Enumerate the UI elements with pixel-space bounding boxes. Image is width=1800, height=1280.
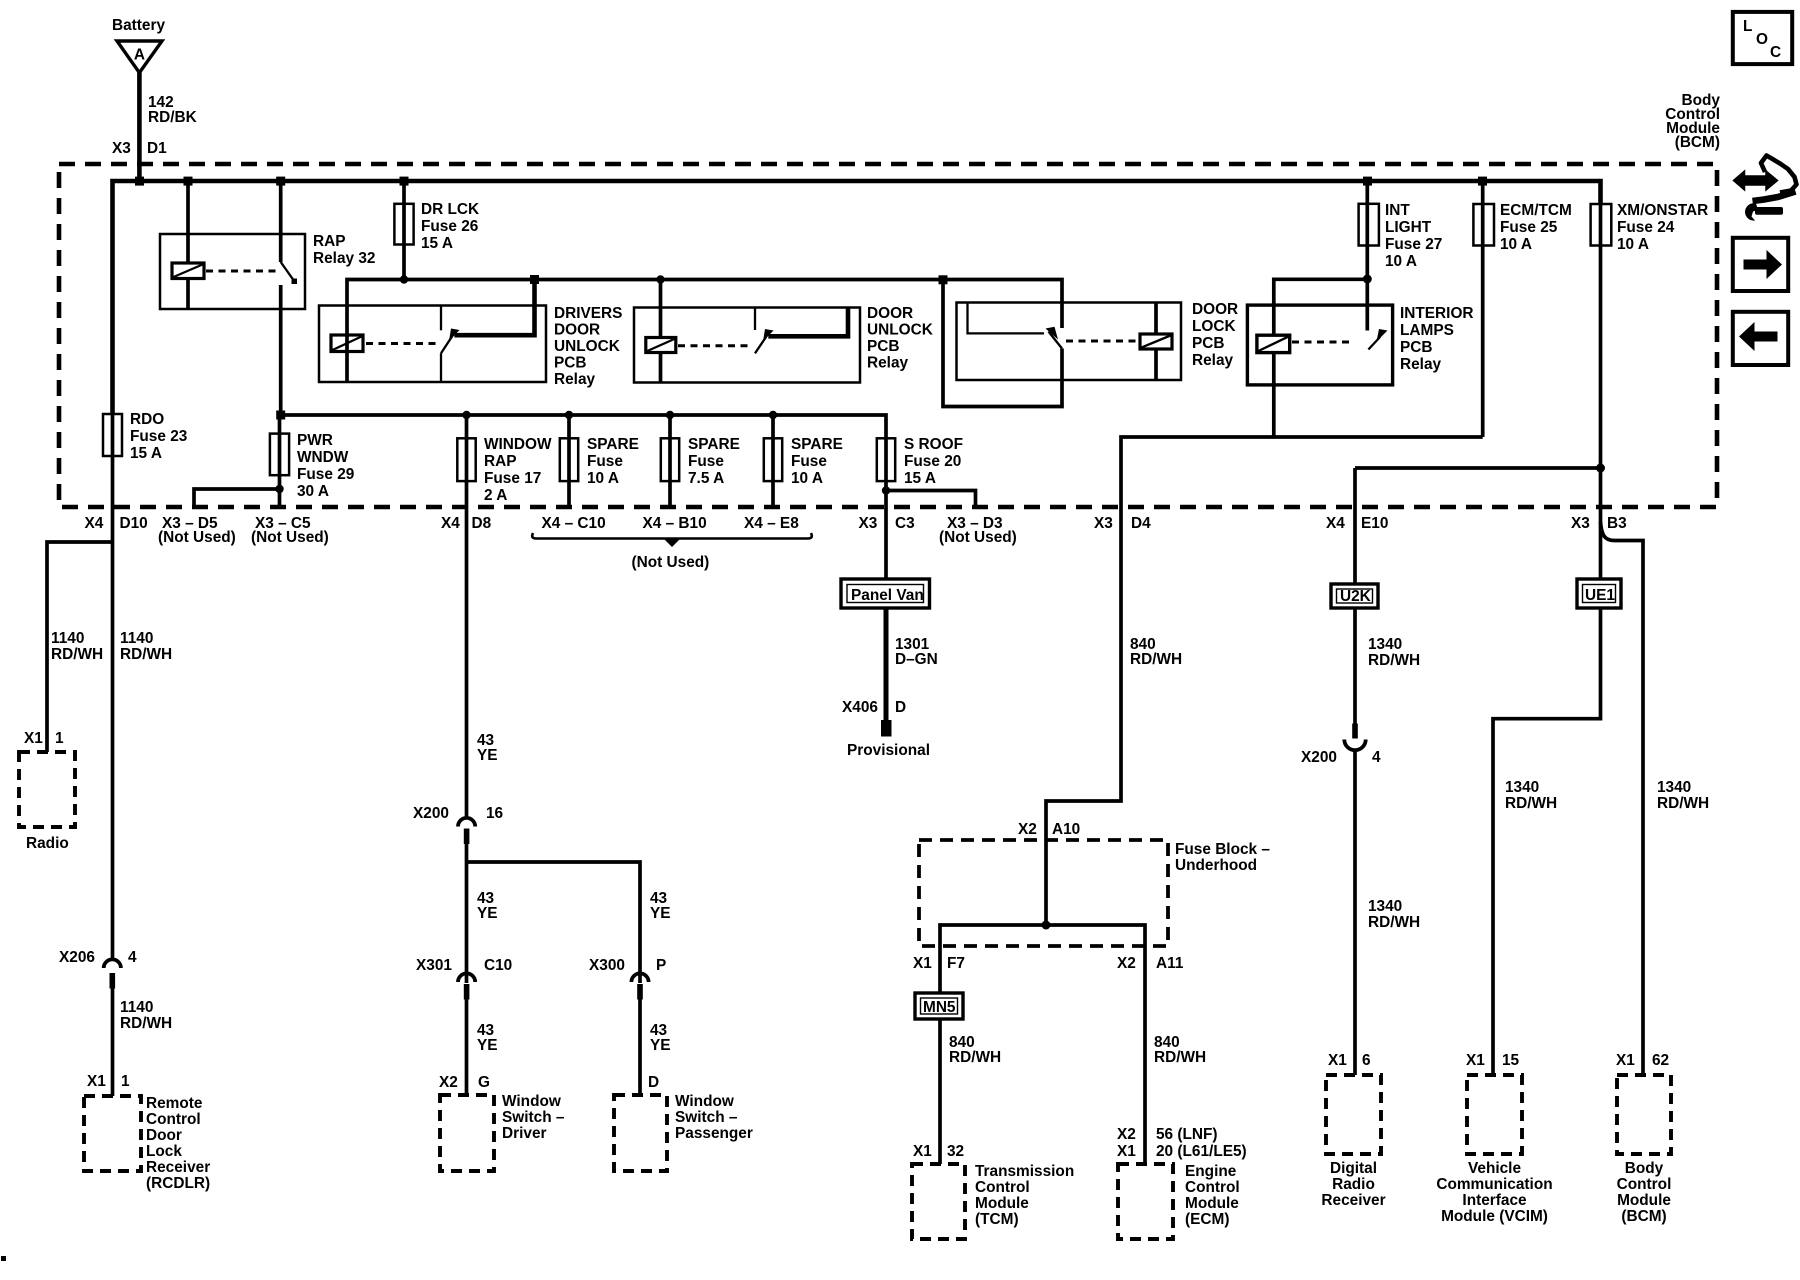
wire: 1340 RD/WH to digital radio receiver	[1328, 749, 1420, 1075]
relay K4 coil	[1257, 279, 1367, 437]
svg-text:56 (LNF): 56 (LNF)	[1156, 1126, 1218, 1143]
svg-text:X1: X1	[24, 730, 43, 747]
svg-text:X4 – B10: X4 – B10	[643, 515, 707, 532]
wire: branch to BCM battery input	[1601, 522, 1644, 1075]
wire: 1140 RD/WH to RCDLR	[87, 988, 172, 1096]
node: RAP switch to fuse row	[276, 411, 285, 420]
fuse F20 S ROOF 15A	[877, 436, 963, 487]
svg-text:X2: X2	[1018, 821, 1037, 838]
svg-text:Fuse 17: Fuse 17	[484, 470, 541, 487]
svg-text:Fuse 27: Fuse 27	[1385, 236, 1442, 253]
relay K1 coil	[331, 335, 363, 382]
svg-text:Relay: Relay	[1400, 356, 1442, 373]
svg-text:S ROOF: S ROOF	[904, 436, 963, 453]
svg-text:15 A: 15 A	[130, 445, 162, 462]
svg-text:7.5 A: 7.5 A	[688, 470, 724, 487]
node: door lock relay tap	[939, 275, 948, 284]
svg-text:16: 16	[486, 805, 503, 822]
wire: fuse 20 stub to X3-D3	[886, 491, 976, 508]
wire: fuse row bus	[281, 415, 886, 438]
wire: main battery bus inside BCM	[113, 181, 1601, 414]
svg-text:(Not Used): (Not Used)	[158, 529, 236, 546]
fuse spare 7.5A (X4-B10)	[661, 415, 740, 507]
svg-text:F7: F7	[947, 955, 965, 972]
svg-text:32: 32	[947, 1143, 964, 1160]
svg-text:PCB: PCB	[1400, 339, 1433, 356]
svg-text:Fuse: Fuse	[587, 453, 623, 470]
relay K2 coil-to-contact dashed link	[678, 344, 752, 347]
wire: circuit 1140 RD/WH from fuse 23	[51, 456, 172, 959]
svg-text:Fuse 29: Fuse 29	[297, 466, 354, 483]
node: drivers relay NO tap	[530, 275, 539, 284]
svg-text:(Not Used): (Not Used)	[251, 529, 329, 546]
svg-text:1: 1	[121, 1073, 130, 1090]
wire: battery to bus, circuit 142 RD/BK	[112, 71, 197, 183]
relay K32 switch contact	[281, 181, 297, 415]
wire: circuit 43 YE from fuse 17	[467, 481, 498, 818]
svg-text:(Not Used): (Not Used)	[939, 529, 1017, 546]
svg-text:Provisional: Provisional	[847, 742, 930, 759]
svg-text:Vehicle: Vehicle	[1468, 1160, 1521, 1177]
svg-text:Door: Door	[146, 1127, 182, 1144]
svg-text:RAP: RAP	[313, 233, 346, 250]
svg-text:E10: E10	[1361, 515, 1388, 532]
svg-text:15 A: 15 A	[904, 470, 936, 487]
wire labels 43 YE lower	[477, 1022, 671, 1054]
svg-text:UE1: UE1	[1585, 587, 1615, 604]
svg-text:LOCK: LOCK	[1192, 318, 1236, 335]
node: fuse 25 tap	[1478, 177, 1487, 186]
fuse spare 10A (X4-C10)	[560, 415, 639, 507]
node: fuse 26 tap	[400, 177, 409, 186]
svg-text:Fuse 23: Fuse 23	[130, 428, 187, 445]
svg-text:RAP: RAP	[484, 453, 517, 470]
relay K32 coil	[172, 181, 204, 309]
icon: arrow right legend box	[1733, 238, 1788, 291]
component: Window Switch - Driver	[440, 1093, 565, 1171]
svg-text:Battery: Battery	[112, 17, 165, 34]
component: Digital Radio Receiver	[1321, 1075, 1385, 1209]
svg-text:X2: X2	[439, 1074, 458, 1091]
node: fuse 24 output split	[1596, 464, 1605, 473]
svg-text:Communication: Communication	[1436, 1176, 1552, 1193]
svg-text:PCB: PCB	[1192, 335, 1225, 352]
node: spare fuse tap 2	[666, 411, 674, 419]
svg-text:(BCM): (BCM)	[1621, 1208, 1666, 1225]
component: Vehicle Communication Interface Module (VCIM)	[1436, 1075, 1552, 1225]
svg-text:Receiver: Receiver	[1321, 1192, 1385, 1209]
svg-text:YE: YE	[650, 905, 671, 922]
relay K3 coil-to-contact dashed link	[1066, 340, 1137, 343]
relay K3 DOOR LOCK PCB Relay box	[957, 301, 1239, 380]
svg-text:RD/WH: RD/WH	[1154, 1049, 1206, 1066]
svg-text:Window: Window	[502, 1093, 561, 1110]
svg-text:L: L	[1743, 18, 1752, 35]
wire: fuse 29 stub to X3-D5	[194, 489, 280, 507]
component: Engine Control Module (ECM)	[1118, 1163, 1240, 1239]
relay K32 coil-to-contact dashed link	[206, 270, 276, 273]
svg-text:Passenger: Passenger	[675, 1125, 753, 1142]
svg-text:RD/WH: RD/WH	[120, 646, 172, 663]
wire: 840 RD/WH to TCM	[913, 1019, 1001, 1164]
wire: 840 RD/WH to ECM	[1117, 1034, 1247, 1160]
svg-text:Relay: Relay	[867, 355, 909, 372]
svg-text:Engine: Engine	[1185, 1163, 1237, 1180]
svg-text:X3: X3	[1094, 515, 1113, 532]
svg-text:PCB: PCB	[554, 355, 587, 372]
svg-text:Control: Control	[146, 1111, 201, 1128]
relay K1 DRIVERS DOOR UNLOCK PCB Relay box	[319, 305, 622, 388]
svg-text:RDO: RDO	[130, 411, 164, 428]
node: battery junction on bus	[135, 177, 144, 186]
svg-text:1340: 1340	[1368, 636, 1402, 653]
svg-text:UNLOCK: UNLOCK	[867, 322, 933, 339]
svg-text:Relay: Relay	[1192, 352, 1234, 369]
svg-text:D: D	[648, 1074, 659, 1091]
svg-text:X4: X4	[441, 515, 460, 532]
svg-text:X1: X1	[87, 1073, 106, 1090]
component: Fuse Block - Underhood dashed box	[919, 840, 1270, 946]
wire: split to both window switches	[467, 843, 641, 1095]
svg-text:D10: D10	[120, 515, 148, 532]
svg-text:30 A: 30 A	[297, 483, 329, 500]
wire: door lock relay outer loop	[943, 280, 1062, 407]
svg-text:X300: X300	[589, 957, 625, 974]
svg-text:Fuse Block –: Fuse Block –	[1175, 841, 1270, 858]
option tag: Panel Van	[841, 579, 930, 608]
connector X206 pin 4 inline	[59, 949, 137, 989]
option tag: U2K	[1331, 584, 1378, 608]
svg-text:(BCM): (BCM)	[1675, 134, 1720, 151]
svg-text:SPARE: SPARE	[688, 436, 740, 453]
svg-text:YE: YE	[477, 747, 498, 764]
relay K4 INTERIOR LAMPS PCB Relay box	[1247, 305, 1473, 385]
svg-text:1340: 1340	[1368, 898, 1402, 915]
svg-text:(TCM): (TCM)	[975, 1211, 1019, 1228]
svg-text:SPARE: SPARE	[587, 436, 639, 453]
svg-text:Fuse 25: Fuse 25	[1500, 219, 1558, 236]
svg-text:O: O	[1756, 31, 1768, 48]
svg-text:P: P	[656, 957, 666, 974]
svg-text:X1: X1	[1466, 1052, 1485, 1069]
svg-text:1140: 1140	[120, 999, 153, 1016]
svg-text:Fuse 26: Fuse 26	[421, 218, 478, 235]
svg-text:C: C	[1770, 44, 1781, 61]
svg-text:X3: X3	[1571, 515, 1590, 532]
svg-text:10 A: 10 A	[1385, 253, 1417, 270]
svg-text:X1: X1	[913, 1143, 932, 1160]
svg-text:Relay: Relay	[554, 371, 596, 388]
svg-text:(RCDLR): (RCDLR)	[146, 1175, 210, 1192]
fuse F27 INT LIGHT 10A	[1359, 181, 1443, 279]
svg-text:15 A: 15 A	[421, 235, 453, 252]
label: Body Control Module (BCM)	[1665, 92, 1720, 151]
component: Window Switch - Passenger	[614, 1093, 753, 1171]
relay K1 switch contact with arrow	[441, 281, 535, 381]
wire: UE1 to VCIM circuit 1340 RD/WH	[1466, 608, 1601, 1075]
svg-text:1140: 1140	[51, 630, 84, 647]
svg-text:6: 6	[1362, 1052, 1371, 1069]
node: underhood junction	[1042, 921, 1051, 930]
svg-text:X1: X1	[1117, 1143, 1136, 1160]
svg-text:X301: X301	[416, 957, 452, 974]
relay K4 coil-to-contact dashed link	[1292, 341, 1354, 344]
node: fuse 20 output split	[882, 486, 890, 494]
svg-text:Interface: Interface	[1462, 1192, 1527, 1209]
BCM module dashed boundary box	[59, 164, 1717, 507]
fuse F23 RDO 15A	[103, 411, 187, 462]
wire: circuit 840 RD/WH from fuse 25 to underhood fuse block	[1018, 437, 1483, 925]
relay K1 coil-to-contact dashed link	[366, 342, 438, 345]
wire: circuit 1340 RD/WH branch from fuse 24	[1355, 468, 1601, 669]
svg-text:10 A: 10 A	[1500, 236, 1532, 253]
svg-text:D1: D1	[147, 140, 167, 157]
svg-text:Window: Window	[675, 1093, 734, 1110]
icon: moveable part with tool	[1734, 156, 1797, 221]
mark: page corner dot	[1, 1256, 6, 1261]
fuse F26 DR LCK 15A	[394, 181, 479, 280]
node: fuse 29 output split	[275, 485, 283, 493]
svg-text:C3: C3	[895, 515, 915, 532]
svg-text:D–GN: D–GN	[895, 651, 938, 668]
svg-text:1340: 1340	[1505, 779, 1539, 796]
svg-text:Radio: Radio	[1332, 1176, 1375, 1193]
option tag: UE1	[1577, 579, 1621, 608]
fuse F29 PWR WNDW 30A	[270, 415, 354, 507]
svg-text:RD/WH: RD/WH	[1368, 914, 1420, 931]
relay K3 switch contact with arrow	[968, 304, 1063, 349]
relay K32 RAP Relay box	[160, 233, 375, 309]
svg-text:X4 – C10: X4 – C10	[542, 515, 606, 532]
svg-text:X406: X406	[842, 699, 878, 716]
svg-text:Body: Body	[1625, 1160, 1664, 1177]
svg-text:Module: Module	[1185, 1195, 1239, 1212]
svg-text:Control: Control	[975, 1179, 1030, 1196]
svg-text:INT: INT	[1385, 202, 1410, 219]
svg-text:U2K: U2K	[1340, 588, 1371, 605]
component: Transmission Control Module (TCM)	[912, 1163, 1074, 1239]
icon: arrow left legend box	[1733, 312, 1788, 365]
svg-text:A10: A10	[1052, 821, 1080, 838]
relay K4 switch contact with arrow	[1367, 279, 1387, 350]
icon: LOC legend box	[1733, 12, 1792, 64]
svg-text:D8: D8	[472, 515, 492, 532]
svg-text:RD/BK: RD/BK	[148, 109, 197, 126]
fuse F17 WINDOW RAP 2A	[457, 415, 552, 504]
relay K2 coil	[646, 280, 676, 383]
svg-text:SPARE: SPARE	[791, 436, 843, 453]
svg-text:DR LCK: DR LCK	[421, 201, 479, 218]
node: fuse 27 tap	[1363, 177, 1372, 186]
svg-text:XM/ONSTAR: XM/ONSTAR	[1617, 202, 1708, 219]
node: spare fuse tap 3	[769, 411, 777, 419]
svg-text:X2: X2	[1117, 955, 1136, 972]
svg-text:DOOR: DOOR	[554, 322, 600, 339]
connector X200 pin 16 inline	[413, 805, 503, 844]
svg-text:LAMPS: LAMPS	[1400, 322, 1454, 339]
svg-text:YE: YE	[650, 1037, 671, 1054]
svg-text:1140: 1140	[120, 630, 153, 647]
svg-text:D: D	[895, 699, 906, 716]
svg-text:Lock: Lock	[146, 1143, 182, 1160]
svg-text:20 (L61/LE5): 20 (L61/LE5)	[1156, 1143, 1247, 1160]
node: spare fuse tap 1	[565, 411, 573, 419]
connector labels along BCM bottom edge	[85, 515, 1627, 546]
connector X1 pin F7	[913, 955, 965, 972]
node: interior lamps relay tap	[1363, 275, 1372, 284]
svg-text:Driver: Driver	[502, 1125, 547, 1142]
svg-text:C10: C10	[484, 957, 512, 974]
svg-text:X2: X2	[1117, 1126, 1136, 1143]
svg-text:MN5: MN5	[923, 999, 956, 1016]
svg-text:1: 1	[55, 730, 64, 747]
svg-text:Control: Control	[1617, 1176, 1672, 1193]
svg-text:Switch –: Switch –	[675, 1109, 738, 1126]
fuse F25 ECM/TCM 10A	[1473, 181, 1571, 437]
svg-text:(ECM): (ECM)	[1185, 1211, 1229, 1228]
svg-text:Fuse 20: Fuse 20	[904, 453, 961, 470]
svg-text:RD/WH: RD/WH	[949, 1049, 1001, 1066]
svg-text:Transmission: Transmission	[975, 1163, 1074, 1180]
svg-text:X3: X3	[859, 515, 878, 532]
wire labels 43 YE driver branch	[477, 890, 671, 922]
svg-text:2 A: 2 A	[484, 487, 507, 504]
svg-text:WINDOW: WINDOW	[484, 436, 552, 453]
svg-text:DOOR: DOOR	[1192, 301, 1238, 318]
svg-text:X4: X4	[1326, 515, 1345, 532]
svg-text:WNDW: WNDW	[297, 449, 349, 466]
svg-text:Fuse: Fuse	[688, 453, 724, 470]
svg-text:B3: B3	[1607, 515, 1627, 532]
connector X300 pin P inline	[589, 957, 666, 1000]
svg-text:Control: Control	[1185, 1179, 1240, 1196]
svg-text:YE: YE	[477, 905, 498, 922]
svg-text:Digital: Digital	[1330, 1160, 1377, 1177]
svg-text:Relay 32: Relay 32	[313, 250, 375, 267]
svg-text:Underhood: Underhood	[1175, 857, 1257, 874]
svg-text:Receiver: Receiver	[146, 1159, 210, 1176]
svg-text:DRIVERS: DRIVERS	[554, 305, 622, 322]
svg-text:Fuse 24: Fuse 24	[1617, 219, 1675, 236]
connector X1 pin 1 radio	[24, 730, 64, 747]
svg-text:Panel Van: Panel Van	[851, 587, 924, 604]
svg-text:RD/WH: RD/WH	[1368, 652, 1420, 669]
svg-text:X1: X1	[1328, 1052, 1347, 1069]
wire: relay feed bus from fuse 26	[347, 280, 1062, 336]
svg-text:YE: YE	[477, 1037, 498, 1054]
bracket: not used spare connectors	[532, 533, 812, 571]
fuse spare 10A (X4-E8)	[764, 415, 843, 507]
node: fuse 17 tap	[462, 411, 470, 419]
connector X200 pin 4 inline	[1301, 724, 1381, 767]
svg-text:X200: X200	[1301, 749, 1337, 766]
svg-text:RD/WH: RD/WH	[1130, 651, 1182, 668]
svg-text:X1: X1	[1616, 1052, 1635, 1069]
svg-text:PCB: PCB	[867, 338, 900, 355]
svg-text:RD/WH: RD/WH	[120, 1015, 172, 1032]
svg-text:X4: X4	[85, 515, 104, 532]
svg-text:4: 4	[1372, 749, 1381, 766]
component: Radio	[19, 752, 75, 852]
option tag: MN5	[915, 993, 963, 1019]
svg-text:X200: X200	[413, 805, 449, 822]
wire: circuit 1301 D-GN provisional	[842, 608, 938, 759]
svg-text:(Not Used): (Not Used)	[632, 554, 710, 571]
svg-text:UNLOCK: UNLOCK	[554, 338, 620, 355]
svg-text:A: A	[134, 47, 145, 64]
node: door unlock relay coil tap	[656, 275, 664, 283]
svg-text:X4 – E8: X4 – E8	[744, 515, 799, 532]
svg-text:ECM/TCM: ECM/TCM	[1500, 202, 1572, 219]
wire: underhood split to TCM and ECM feeds	[940, 925, 1145, 1164]
wire: branch to radio	[47, 542, 113, 752]
svg-text:10 A: 10 A	[587, 470, 619, 487]
connector X301 pin C10 inline	[416, 957, 512, 1000]
wire: fuse 20 output to panel van	[884, 481, 888, 579]
node: RAP switch tap	[276, 177, 285, 186]
svg-text:10 A: 10 A	[791, 470, 823, 487]
component: Body Control Module (BCM) lower	[1617, 1075, 1672, 1225]
svg-text:INTERIOR: INTERIOR	[1400, 305, 1474, 322]
svg-text:10 A: 10 A	[1617, 236, 1649, 253]
node: fuse 26 to relay bus	[400, 275, 408, 283]
component: Remote Control Door Lock Receiver (RCDLR)	[84, 1095, 210, 1192]
svg-text:X1: X1	[913, 955, 932, 972]
svg-text:DOOR: DOOR	[867, 305, 913, 322]
node: RAP coil tap	[184, 177, 193, 186]
battery feed symbol A	[112, 17, 165, 73]
svg-text:LIGHT: LIGHT	[1385, 219, 1432, 236]
svg-text:Module: Module	[1617, 1192, 1671, 1209]
wire: U2K to X200	[1353, 608, 1357, 724]
svg-text:X206: X206	[59, 949, 95, 966]
svg-text:62: 62	[1652, 1052, 1669, 1069]
svg-text:D4: D4	[1131, 515, 1151, 532]
svg-text:Switch –: Switch –	[502, 1109, 565, 1126]
connector X2 pin G	[439, 1074, 490, 1091]
svg-text:Radio: Radio	[26, 835, 69, 852]
svg-text:15: 15	[1502, 1052, 1520, 1069]
svg-text:Module (VCIM): Module (VCIM)	[1441, 1208, 1548, 1225]
svg-text:Fuse: Fuse	[791, 453, 827, 470]
wire label 1340 RD/WH to BCM	[1616, 779, 1709, 1069]
svg-text:X3: X3	[112, 140, 131, 157]
relay K2 DOOR UNLOCK PCB Relay box	[634, 305, 933, 383]
fuse F24 XM/ONSTAR 10A	[1591, 200, 1709, 579]
relay K3 coil	[1140, 303, 1172, 381]
svg-text:G: G	[478, 1074, 490, 1091]
relay K2 switch contact with arrow	[755, 308, 848, 354]
svg-text:Remote: Remote	[146, 1095, 203, 1112]
svg-text:4: 4	[128, 949, 137, 966]
svg-text:RD/WH: RD/WH	[1505, 795, 1557, 812]
svg-text:Module: Module	[975, 1195, 1029, 1212]
svg-text:RD/WH: RD/WH	[1657, 795, 1709, 812]
svg-text:PWR: PWR	[297, 432, 333, 449]
svg-text:A11: A11	[1156, 955, 1184, 972]
svg-text:1340: 1340	[1657, 779, 1691, 796]
connector X2 pin A11	[1117, 955, 1184, 972]
svg-text:RD/WH: RD/WH	[51, 646, 103, 663]
